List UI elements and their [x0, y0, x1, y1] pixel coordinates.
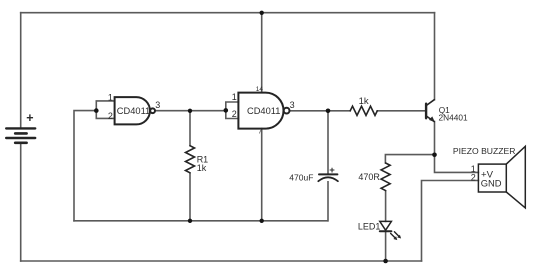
node top rail junction	[260, 11, 264, 15]
wire gate2 input tie bar	[226, 102, 239, 119]
wire emitter to buzzer +V	[435, 122, 479, 173]
svg-text:+: +	[26, 111, 33, 125]
node bottom rail LED junction	[383, 259, 388, 264]
transistor Q1 emitter stroke	[426, 116, 434, 122]
svg-text:CD4011: CD4011	[117, 106, 150, 116]
wire base	[377, 110, 426, 112]
resistor 1k	[350, 106, 377, 115]
piezo buzzer box	[478, 164, 506, 192]
wire LED cathode to bottom rail	[385, 231, 387, 261]
LED1 cathode bar	[380, 230, 392, 232]
wire feedback	[74, 111, 96, 221]
wire buzzer GND riser	[422, 181, 479, 262]
wire gate1 output to gate2 input	[155, 110, 226, 112]
svg-text:2: 2	[232, 109, 237, 119]
wire collector riser	[434, 13, 436, 100]
svg-text:1k: 1k	[197, 163, 207, 173]
svg-text:470R: 470R	[358, 172, 380, 182]
wire capacitor bottom	[327, 182, 329, 221]
node mid rail R1 junction	[188, 219, 192, 223]
piezo buzzer speaker cone	[506, 146, 525, 208]
wire R1 bottom	[189, 173, 191, 221]
node mid rail gate2 VSS junction	[260, 219, 264, 223]
wire gate2 VDD pin riser	[261, 13, 263, 93]
node gate2 input junction	[224, 108, 229, 113]
battery B1	[6, 128, 35, 142]
wire top rail	[21, 12, 435, 14]
svg-text:2: 2	[108, 111, 113, 121]
transistor Q1 base bar	[425, 104, 427, 119]
LED1 arrowhead 2	[397, 235, 401, 239]
transistor Q1 emitter arrowhead	[429, 116, 435, 122]
svg-text:2N4401: 2N4401	[439, 113, 468, 123]
wire R1 top	[189, 111, 191, 146]
wire capacitor top	[327, 111, 329, 174]
op-amp U1B output bubble	[284, 108, 290, 114]
wire battery negative	[20, 144, 22, 261]
svg-text:1: 1	[232, 92, 237, 102]
svg-text:LED1: LED1	[358, 222, 381, 232]
capacitor C1 top plate	[319, 173, 337, 175]
wire 470R to LED	[385, 191, 387, 221]
wire 470R top to emitter node	[385, 155, 434, 163]
svg-text:2: 2	[471, 173, 476, 183]
node emitter junction	[432, 153, 437, 158]
LED1 emission arrows	[391, 232, 400, 239]
transistor Q1 collector stroke	[426, 100, 434, 106]
capacitor C1 curved plate	[318, 177, 338, 181]
svg-text:CD4011: CD4011	[247, 106, 280, 116]
svg-text:14: 14	[256, 86, 264, 93]
wire gate2 VSS pin drop	[261, 129, 263, 221]
LED1 arrowhead 1	[393, 236, 397, 240]
resistor 470R	[381, 163, 390, 191]
svg-text:1: 1	[108, 93, 113, 103]
op-amp U1B nand gate body	[238, 93, 283, 129]
wire gate1 input tie bar	[96, 101, 114, 119]
wire gate2 output to 1k	[290, 110, 351, 112]
svg-text:470uF: 470uF	[289, 172, 313, 182]
resistor R1	[186, 146, 195, 173]
node capacitor top junction	[326, 109, 331, 114]
svg-text:PIEZO BUZZER: PIEZO BUZZER	[453, 146, 516, 156]
wire bottom rail	[21, 260, 422, 262]
node gate1 output junction	[188, 109, 192, 113]
svg-text:3: 3	[290, 100, 295, 110]
node gate1 input junction	[94, 108, 99, 113]
svg-text:3: 3	[155, 100, 160, 110]
svg-text:GND: GND	[481, 178, 502, 189]
op-amp U1A output bubble	[150, 108, 155, 113]
svg-text:+: +	[329, 165, 335, 176]
LED1 triangle	[380, 221, 392, 230]
wire battery positive	[20, 13, 22, 128]
wire mid rail	[74, 220, 328, 222]
svg-text:7: 7	[258, 129, 262, 136]
op-amp U1A nand gate body	[115, 97, 150, 124]
svg-text:1k: 1k	[359, 96, 369, 107]
